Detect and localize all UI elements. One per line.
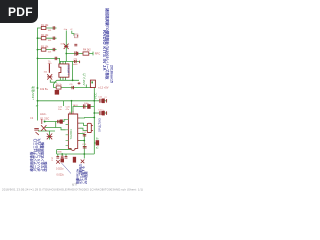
junction dot left rail y88 <box>37 87 39 89</box>
svg-text:RFC: RFC <box>95 52 100 56</box>
junction dot audio node <box>83 140 85 142</box>
CF1 pin dot <box>77 35 78 36</box>
svg-text:10u: 10u <box>58 109 62 111</box>
wire speaker branch lower <box>94 112 99 114</box>
svg-text:R1 10k: R1 10k <box>41 25 49 27</box>
svg-text:1S: 1S <box>30 118 33 120</box>
capacitor C15 <box>83 134 86 136</box>
wire ANT label stub <box>85 85 87 88</box>
capacitor C18 electrolytic <box>61 156 64 158</box>
wire diode drop <box>49 131 51 140</box>
wire VCC rail horizontal <box>38 100 95 102</box>
resistor R3 <box>41 48 46 51</box>
resistor R4 <box>83 52 89 55</box>
capacitor C7 <box>75 60 77 63</box>
svg-text:455: 455 <box>48 63 52 65</box>
wire IC1 top bus <box>60 60 79 62</box>
resistor R2 <box>41 37 46 40</box>
capacitor C11 body <box>102 99 104 103</box>
node end bar speaker upper <box>106 99 108 103</box>
svg-text:2018/9/01 23:05:24 f=1.29 D:: 2018/9/01 23:05:24 f=1.29 D:\TOUHOU\EAGL… <box>2 188 143 192</box>
capacitor C6 plus bar <box>77 52 78 55</box>
polarized cap C20 <box>73 157 76 162</box>
svg-text:C9: C9 <box>70 84 74 86</box>
wire speaker branch upper right <box>104 100 106 102</box>
pin 1 marker <box>91 81 93 83</box>
svg-text:47u: 47u <box>66 109 70 111</box>
capacitor C5 <box>74 44 77 46</box>
junction dot row2 <box>37 37 39 39</box>
wire IC1 bottom pin stub 2 <box>62 77 64 80</box>
capacitor C14 electrolytic <box>58 120 59 123</box>
wire speaker branch upper <box>94 100 99 102</box>
wire led stub <box>94 142 97 144</box>
wire tune line to IC2 <box>45 128 66 130</box>
svg-text:仕TT: 仕TT <box>72 183 78 187</box>
resistor R5 <box>56 86 61 89</box>
svg-text:0.022u: 0.022u <box>56 167 64 170</box>
wire AGC line to IC2 <box>45 120 66 122</box>
capacitor C18 body <box>61 159 64 162</box>
capacitor C13 <box>34 128 39 130</box>
ferrite bead FB1 <box>55 90 59 94</box>
svg-text:2018nov15: 2018nov15 <box>109 65 113 83</box>
wire mixer chain y87.6 <box>54 87 93 89</box>
capacitor C10 electrolytic <box>83 104 85 108</box>
coil L2 vertical <box>48 64 50 73</box>
svg-text:SP出力8Ω: SP出力8Ω <box>97 117 102 132</box>
U2 right pin stubs <box>78 118 80 141</box>
capacitor C1 <box>53 26 55 29</box>
capacitor C10 body <box>88 105 91 109</box>
wire bottom cap stub 2 <box>61 154 63 156</box>
junction dot ground bus 1 <box>61 153 63 155</box>
node end bar top bus <box>79 61 81 63</box>
svg-text:R2 10k: R2 10k <box>41 35 49 37</box>
svg-text:LMF501: LMF501 <box>66 64 70 74</box>
svg-text:103: 103 <box>48 40 52 42</box>
svg-text:C11: C11 <box>98 97 103 99</box>
wire IC2 to coil pin a <box>80 123 88 125</box>
wire AGC drop <box>55 122 57 128</box>
wires group placeholder <box>37 28 107 159</box>
note leader line <box>62 163 72 174</box>
svg-text:TA2003: TA2003 <box>69 129 73 140</box>
IC U2 TA2003 body <box>68 114 77 150</box>
wire under IC2 <box>57 149 71 151</box>
capacitor C11 electrolytic <box>100 99 101 103</box>
svg-text:2018改版: 2018改版 <box>83 170 88 184</box>
IF transformer T1 <box>87 123 91 132</box>
svg-text:+B9V電池: +B9V電池 <box>30 86 35 100</box>
svg-text:ANT入力: ANT入力 <box>81 73 86 85</box>
wire IC1 bottom pin stub 3 <box>65 77 67 80</box>
wire net stub t2 <box>72 31 74 36</box>
node end bar RF chain <box>92 52 94 56</box>
svg-text:C12 +: C12 + <box>98 109 105 111</box>
junction dot IC1 bottom <box>72 79 74 81</box>
svg-text:R5 1k: R5 1k <box>56 84 63 86</box>
svg-text:R4 2k2: R4 2k2 <box>83 49 91 52</box>
wire antenna vertical <box>65 31 67 62</box>
varicap X arrow <box>47 74 52 79</box>
svg-text:10k B+: 10k B+ <box>40 87 49 91</box>
wire IC1 top pin stub 3 <box>65 61 67 64</box>
svg-text:改良版: 改良版 <box>43 161 48 172</box>
wire IC1 right vertical <box>72 61 74 80</box>
op-amp U1 body <box>59 64 69 77</box>
junction dot rail right <box>93 100 95 102</box>
wire audio vertical <box>83 134 85 155</box>
svg-text:TA03: TA03 <box>73 104 79 107</box>
resistor R1 <box>41 26 46 29</box>
diode D1 <box>47 134 53 140</box>
wire IC2 pin y140.5 <box>80 140 85 142</box>
svg-text:103: 103 <box>48 52 52 54</box>
wire ground bus bottom <box>57 153 95 155</box>
wire branch row2 <box>38 37 57 39</box>
wire speaker branch lower right <box>104 112 106 114</box>
junction dot row4 <box>37 58 39 60</box>
svg-text:C16: C16 <box>82 144 87 146</box>
svg-text:100u: 100u <box>84 103 90 105</box>
wire IC1 top pin stub 2 <box>62 61 64 64</box>
svg-text:C15: C15 <box>82 132 87 134</box>
transistor Q1 <box>36 119 47 135</box>
capacitor C17 <box>56 157 59 159</box>
wire IC2 pin to cap <box>80 133 85 135</box>
junction dot left rail y100.8 <box>37 100 39 102</box>
wire bottom cap stub 3 <box>65 154 67 156</box>
svg-text:a+: a+ <box>36 104 39 107</box>
wire IC1 bottom pin stub 1 <box>59 77 61 80</box>
svg-text:R3 10k: R3 10k <box>41 46 49 48</box>
junction dot ground bus 2 <box>83 153 85 155</box>
capacitor C9 <box>72 86 74 89</box>
wire stub below rail <box>63 101 65 106</box>
svg-text:C17: C17 <box>52 156 54 161</box>
svg-text:0.022u: 0.022u <box>57 173 65 176</box>
wire IC1 top pin stub 1 <box>59 61 61 64</box>
capacitor C6 <box>75 51 77 55</box>
wire diagonal to mixer chain <box>54 80 57 87</box>
junction dot RF chain <box>65 53 67 55</box>
svg-text:GND: GND <box>57 152 62 154</box>
wire ground bus left corner up <box>56 150 58 154</box>
junction dot row3 <box>37 49 39 51</box>
PDF badge <box>0 0 38 23</box>
junction dot rail x71.5 <box>71 100 73 102</box>
capacitor C3 <box>53 48 55 51</box>
wire IC2 out pin1 jog <box>80 117 95 120</box>
svg-text:10k: 10k <box>44 72 48 74</box>
capacitor C16 <box>83 146 87 148</box>
svg-text:t2: t2 <box>71 28 74 31</box>
wire bottom x stub <box>83 154 85 159</box>
junction dot AGC node <box>44 121 46 123</box>
wire osc line <box>38 130 55 132</box>
U2 top pin stubs <box>70 112 73 115</box>
svg-text:t1●: t1● <box>64 28 68 31</box>
capacitor C2 <box>53 37 55 40</box>
svg-text:a2: a2 <box>96 147 99 149</box>
junction dot right bus y113 <box>93 112 95 114</box>
capacitor C12 electrolytic <box>100 111 101 115</box>
svg-text:AGC-: AGC- <box>40 112 47 116</box>
ceramic filter CF1 <box>74 34 78 38</box>
capacitor C14 body <box>60 120 62 123</box>
wire main left rail vertical <box>37 28 39 121</box>
varistor X mark 1 <box>56 160 60 164</box>
capacitor C4 <box>55 57 57 60</box>
capacitor C19 <box>65 157 68 159</box>
svg-text:諸回路実験TO開発基板:TA2003シリーズ基板: 諸回路実験TO開発基板:TA2003シリーズ基板 <box>105 8 110 80</box>
capacitor C12 body <box>102 111 104 115</box>
connector X1 antenna jack <box>90 80 95 87</box>
wire IC1 bottom bus <box>57 79 79 81</box>
junction dot right bus y117.5 <box>93 117 95 119</box>
svg-text:n 12 +5V: n 12 +5V <box>98 85 109 89</box>
wire IC2 to coil pin b <box>80 128 88 130</box>
svg-text:22p: 22p <box>74 58 78 60</box>
wire branch row4 to IC1 pin <box>38 58 60 64</box>
svg-text:+u: +u <box>104 97 107 99</box>
wire right vertical bus <box>93 88 95 155</box>
wire RF chain y53.5 <box>66 53 93 55</box>
node end bar speaker lower <box>106 111 108 115</box>
wire rail drop to IC2 <box>71 101 73 114</box>
wire decoupling line y106.5 <box>73 107 94 113</box>
capacitor C8 end <box>78 82 81 85</box>
svg-text:Q1 2SC: Q1 2SC <box>40 117 49 121</box>
varicap CV1 X <box>64 44 69 49</box>
T1 right pin stubs <box>91 126 93 131</box>
wire branch row3 <box>38 49 57 51</box>
wire branch row1 <box>38 27 57 29</box>
varistor X mark 2 <box>81 160 85 164</box>
svg-text:ixR8: ixR8 <box>73 64 78 66</box>
U2 left pin stubs <box>66 120 69 146</box>
LED D2 <box>96 141 99 145</box>
svg-text:103: 103 <box>48 30 52 32</box>
wire bottom cap stub 1 <box>57 154 59 156</box>
svg-text:VCC: VCC <box>94 92 98 99</box>
wire varicap to bus <box>50 80 56 82</box>
